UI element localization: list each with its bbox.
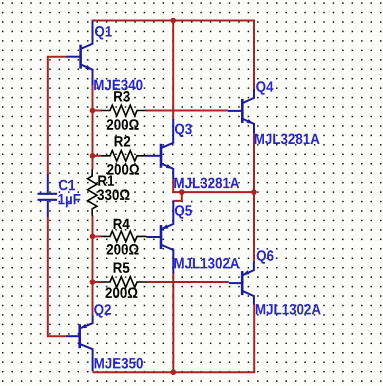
label 200ohm R5 xyxy=(106,287,138,298)
label MJL3281A right xyxy=(255,134,320,145)
wire R3 right to Q4 base xyxy=(146,110,228,112)
label R3 xyxy=(114,91,130,102)
transistor Q2 MJE350 PNP xyxy=(66,315,93,371)
label 200ohm R4 xyxy=(107,244,139,255)
wire C1 bottom to Q2 base xyxy=(48,217,66,337)
label R2 xyxy=(115,136,131,147)
label R4 xyxy=(114,219,130,229)
wire right column Q6 collector to bottom xyxy=(253,304,255,372)
resistors black xyxy=(88,105,147,287)
label Q4 xyxy=(256,81,273,95)
label MJL1302A right xyxy=(256,304,321,315)
label Q1 xyxy=(95,26,112,40)
wire R2 left stub xyxy=(92,155,102,157)
resistor R5 xyxy=(102,277,147,288)
resistor R4 xyxy=(102,231,147,242)
label C1 xyxy=(59,180,75,191)
resistor R3 xyxy=(102,105,147,116)
wire R5 left stub xyxy=(92,281,102,283)
wire R3 left stub xyxy=(92,110,102,112)
label 330ohm R1 xyxy=(97,189,129,200)
wire rail Q1 emitter down to R1 xyxy=(92,84,94,170)
wire right column Q4 emitter to mid xyxy=(253,133,255,263)
wire mid rail output xyxy=(173,179,255,193)
label MJL3281A mid xyxy=(174,178,239,189)
capacitor C1 xyxy=(38,174,58,217)
label 1uF C1 xyxy=(58,194,80,207)
resistor R1 (vertical) xyxy=(88,169,97,215)
label 200ohm R2 xyxy=(107,164,139,175)
wire bottom rail V- xyxy=(93,371,256,373)
wire rail R1 bottom down to Q2 emitter xyxy=(92,215,94,315)
wire R4 left stub xyxy=(92,235,102,237)
label Q5 xyxy=(175,205,192,219)
label Q2 xyxy=(94,304,111,318)
wire top rail V+ xyxy=(92,20,256,22)
label R5 xyxy=(114,263,130,273)
node top rail / Q3 collector xyxy=(170,18,176,24)
wire right column upper (to Q4 collector) xyxy=(253,21,255,91)
resistor R2 xyxy=(102,151,147,162)
transistors navy xyxy=(38,21,255,371)
wire R5 right to Q6 base xyxy=(146,281,229,283)
node rail/R2 xyxy=(90,153,96,159)
node mid rail / Q4-Q6 xyxy=(251,189,257,195)
wires red xyxy=(48,21,255,374)
label 200ohm R3 xyxy=(107,119,139,130)
wire jog to Q5 emitter xyxy=(173,192,181,201)
transistor Q1 MJE340 NPN xyxy=(66,21,93,85)
label MJL1302A mid xyxy=(174,258,239,269)
wire Q5 collector down xyxy=(172,273,174,373)
transistor Q6 MJL1302A PNP xyxy=(229,262,254,305)
node rail/R5 xyxy=(90,279,96,285)
label R1 xyxy=(98,176,114,186)
transistor Q4 MJL3281A NPN xyxy=(228,89,254,133)
label MJE350 xyxy=(95,358,143,369)
transistor Q3 MJL3281A NPN xyxy=(147,119,174,179)
node bottom rail / Q5 collector xyxy=(171,369,177,375)
wire Q1 base left xyxy=(48,57,66,175)
node rail/R3 xyxy=(90,108,96,114)
label Q6 xyxy=(257,250,274,263)
wire Q3 collector to top rail xyxy=(172,21,174,121)
transistor Q5 MJL1302A PNP xyxy=(147,201,174,274)
node mid rail / Q5 emitter xyxy=(179,189,185,195)
label Q3 xyxy=(175,124,192,138)
node rail/R4 xyxy=(90,234,96,240)
label MJE340 xyxy=(94,80,142,91)
